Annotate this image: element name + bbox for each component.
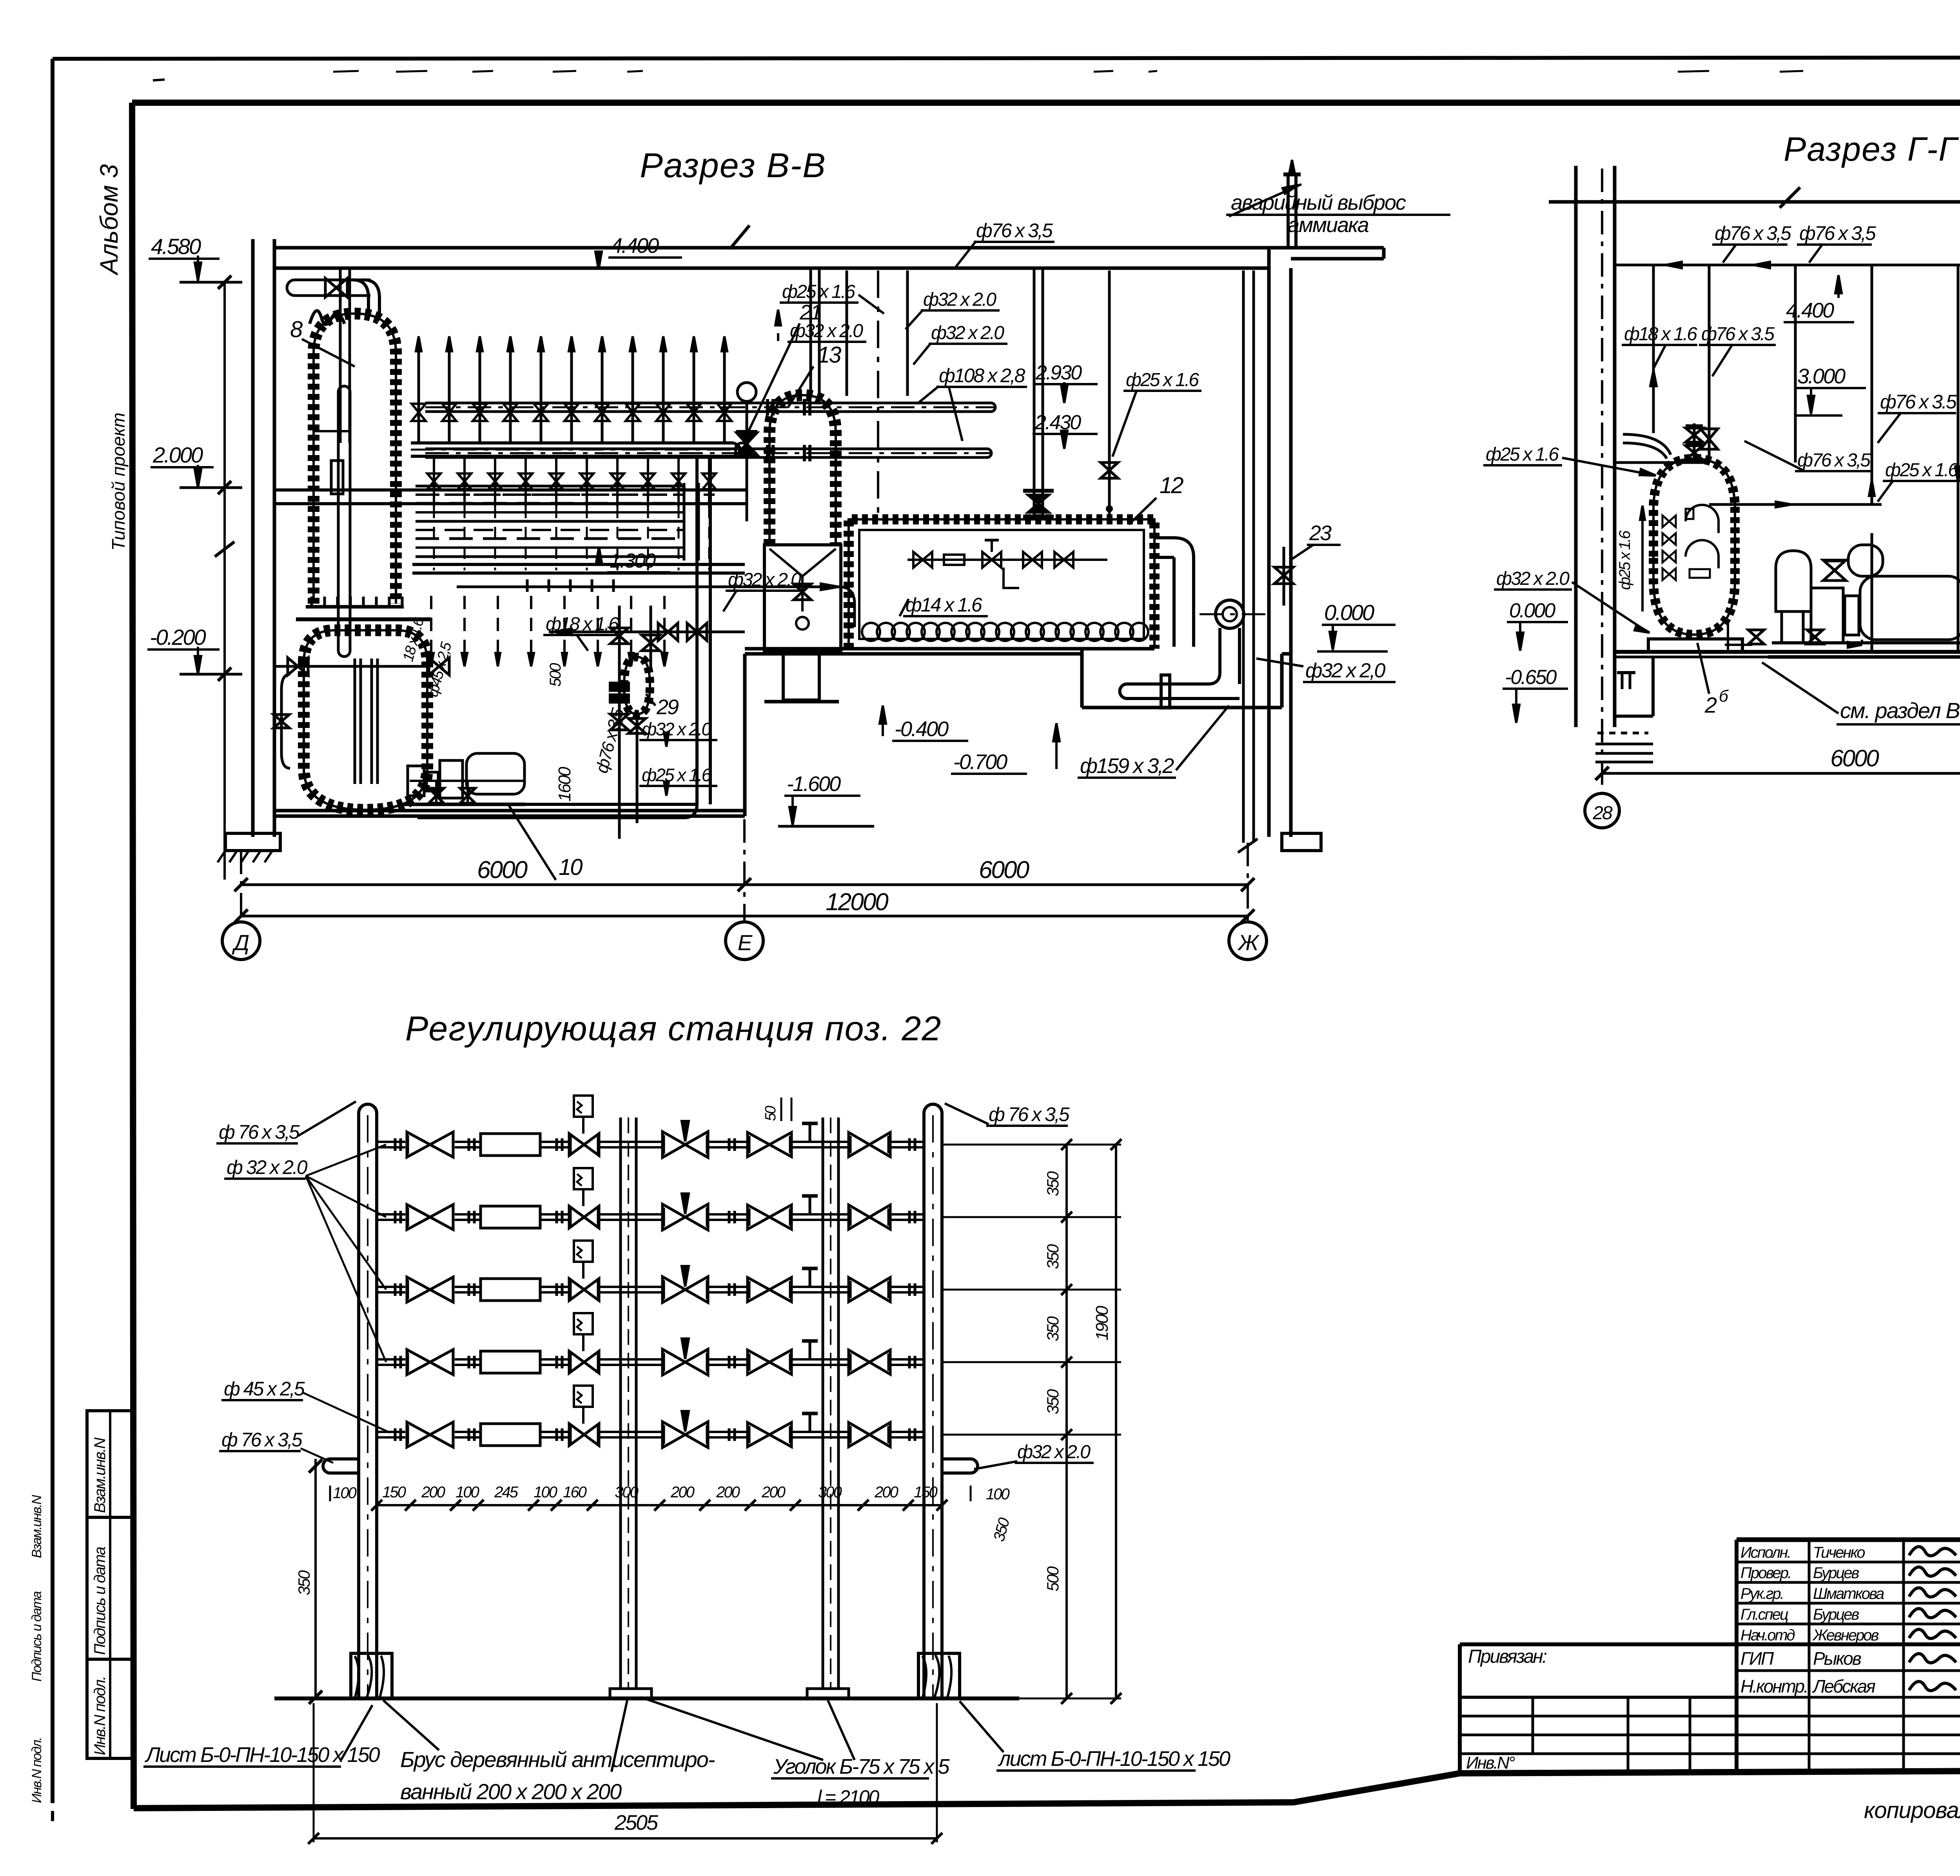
svg-text:ф32 x 2,0: ф32 x 2,0 [1305, 659, 1386, 682]
svg-text:Уголок Б-75 x 75 x 5: Уголок Б-75 x 75 x 5 [773, 1755, 950, 1778]
svg-text:Исполн.: Исполн. [1740, 1544, 1790, 1561]
svg-text:ф 45 x 2,5: ф 45 x 2,5 [224, 1378, 305, 1400]
svg-text:100: 100 [333, 1484, 356, 1502]
svg-text:300: 300 [615, 1484, 638, 1501]
svg-text:200: 200 [421, 1484, 445, 1501]
svg-text:Рыков: Рыков [1813, 1648, 1861, 1669]
svg-text:Альбом 3: Альбом 3 [95, 164, 123, 276]
svg-text:ф25 x 1.6: ф25 x 1.6 [1126, 370, 1199, 390]
svg-text:150: 150 [382, 1484, 406, 1501]
svg-text:Жевнеров: Жевнеров [1812, 1627, 1879, 1644]
svg-text:200: 200 [716, 1484, 740, 1501]
svg-text:23: 23 [1309, 521, 1332, 545]
svg-text:копировал: Волчева: копировал: Волчева [1864, 1798, 1960, 1823]
svg-text:Ж: Ж [1237, 930, 1260, 955]
svg-text:Взам.инв.N: Взам.инв.N [91, 1437, 109, 1513]
svg-text:500: 500 [1044, 1566, 1062, 1591]
svg-text:ф25 x 1.6: ф25 x 1.6 [1885, 460, 1958, 481]
svg-text:100: 100 [986, 1486, 1009, 1503]
svg-text:29: 29 [656, 695, 679, 719]
svg-text:4.400: 4.400 [611, 234, 659, 258]
svg-text:-0.700: -0.700 [953, 750, 1007, 774]
svg-text:ф76 x 3,5: ф76 x 3,5 [1799, 222, 1876, 244]
svg-text:Бурцев: Бурцев [1813, 1606, 1859, 1623]
svg-text:ф25 x 1.6: ф25 x 1.6 [1486, 444, 1559, 465]
svg-text:4.580: 4.580 [151, 234, 201, 259]
svg-text:8: 8 [290, 317, 303, 342]
svg-text:Д: Д [232, 930, 249, 955]
svg-text:6000: 6000 [1830, 745, 1879, 771]
svg-text:Бурцев: Бурцев [1813, 1564, 1859, 1582]
svg-text:160: 160 [563, 1484, 586, 1501]
svg-text:ф32 x 2.0: ф32 x 2.0 [1496, 568, 1570, 589]
svg-text:1900: 1900 [1093, 1306, 1112, 1341]
svg-text:350: 350 [295, 1570, 313, 1595]
svg-text:245: 245 [494, 1484, 518, 1501]
svg-text:4.400: 4.400 [1786, 299, 1834, 322]
svg-text:ф18 x 1.6: ф18 x 1.6 [1624, 324, 1697, 345]
svg-text:-0.400: -0.400 [895, 717, 949, 741]
svg-text:-0.200: -0.200 [150, 625, 206, 650]
svg-text:аммиака: аммиака [1288, 213, 1369, 237]
svg-text:Е: Е [738, 930, 753, 955]
svg-text:350: 350 [1044, 1316, 1062, 1341]
svg-text:Н.контр.: Н.контр. [1740, 1676, 1808, 1696]
svg-text:ф25 x 1.6: ф25 x 1.6 [642, 765, 712, 785]
svg-text:ф108 x 2,8: ф108 x 2,8 [939, 365, 1025, 386]
svg-text:ф 32 x 2.0: ф 32 x 2.0 [227, 1156, 308, 1178]
svg-text:0.000: 0.000 [1324, 600, 1374, 625]
svg-text:150: 150 [914, 1484, 937, 1501]
svg-text:ф159 x 3,2: ф159 x 3,2 [1080, 754, 1174, 778]
svg-text:Провер.: Провер. [1740, 1564, 1791, 1582]
svg-text:l = 2100: l = 2100 [817, 1786, 880, 1808]
svg-text:10: 10 [559, 855, 583, 880]
svg-text:Подпись и дата: Подпись и дата [29, 1591, 44, 1682]
svg-text:Подпись и дата: Подпись и дата [91, 1547, 109, 1655]
svg-text:350: 350 [1044, 1171, 1062, 1196]
svg-text:ванный 200 x 200 x 200: ванный 200 x 200 x 200 [400, 1779, 622, 1804]
svg-text:Рук.гр.: Рук.гр. [1740, 1585, 1783, 1602]
svg-text:ф76 x 3,5: ф76 x 3,5 [1715, 222, 1791, 244]
svg-text:2.430: 2.430 [1034, 411, 1081, 434]
svg-text:350: 350 [1044, 1244, 1062, 1269]
svg-text:Типовой проект: Типовой проект [108, 412, 129, 551]
svg-text:ф14 x 1.6: ф14 x 1.6 [906, 594, 982, 616]
svg-text:12: 12 [1160, 473, 1183, 498]
svg-text:ф32 x 2.0: ф32 x 2.0 [931, 323, 1004, 343]
svg-text:ф 76 x 3,5: ф 76 x 3,5 [221, 1429, 303, 1451]
svg-text:200: 200 [874, 1484, 898, 1501]
svg-text:3.000: 3.000 [1797, 365, 1846, 388]
svg-text:50: 50 [762, 1106, 779, 1121]
svg-text:21: 21 [799, 301, 821, 324]
svg-text:-0.650: -0.650 [1505, 666, 1557, 689]
svg-text:13: 13 [817, 342, 841, 368]
svg-text:-1.600: -1.600 [787, 772, 841, 796]
svg-text:Разрез В-В: Разрез В-В [640, 146, 826, 185]
svg-text:Регулирующая станция поз. 22: Регулирующая станция поз. 22 [405, 1009, 942, 1048]
svg-text:28: 28 [1592, 803, 1613, 824]
svg-text:ф18 x 1.6: ф18 x 1.6 [546, 614, 619, 635]
svg-text:Лебская: Лебская [1812, 1676, 1875, 1696]
svg-text:Нач.отд: Нач.отд [1740, 1627, 1795, 1644]
svg-text:лист Б-0-ПН-10-150 x 150: лист Б-0-ПН-10-150 x 150 [998, 1747, 1230, 1771]
svg-text:ф25 x 1.6: ф25 x 1.6 [782, 281, 855, 302]
svg-text:ф32 x 2.0: ф32 x 2.0 [642, 719, 712, 739]
svg-text:ф32 x 2.0: ф32 x 2.0 [728, 570, 801, 590]
svg-text:100: 100 [456, 1484, 479, 1501]
svg-text:300: 300 [818, 1484, 842, 1501]
svg-text:1.300: 1.300 [610, 550, 656, 572]
svg-text:ф32 x 2.0: ф32 x 2.0 [1017, 1442, 1091, 1462]
svg-text:ф76 x 3.5: ф76 x 3.5 [1701, 324, 1775, 345]
svg-text:Инв.N подл.: Инв.N подл. [91, 1676, 109, 1755]
svg-text:200: 200 [670, 1484, 694, 1501]
svg-text:500: 500 [547, 663, 564, 687]
svg-text:Брус деревянный антисептиро-: Брус деревянный антисептиро- [400, 1747, 715, 1772]
svg-text:200: 200 [761, 1484, 785, 1501]
svg-text:Гл.спец: Гл.спец [1740, 1606, 1788, 1623]
svg-text:1600: 1600 [555, 767, 574, 802]
svg-text:ф76 x 3,5: ф76 x 3,5 [976, 220, 1053, 241]
svg-text:ф76 x 3,5: ф76 x 3,5 [1797, 450, 1871, 471]
svg-text:350: 350 [1044, 1389, 1062, 1414]
svg-text:0.000: 0.000 [1509, 599, 1555, 622]
svg-text:12000: 12000 [826, 889, 888, 916]
svg-text:ГИП: ГИП [1740, 1648, 1774, 1669]
svg-text:см. раздел ВК: см. раздел ВК [1840, 698, 1960, 723]
svg-text:2.930: 2.930 [1035, 361, 1082, 384]
svg-text:ф 76 x 3,5: ф 76 x 3,5 [219, 1121, 300, 1143]
svg-text:ф76 x 3.5: ф76 x 3.5 [1880, 391, 1957, 413]
svg-text:6000: 6000 [477, 856, 527, 884]
svg-text:ф 76 x 3,5: ф 76 x 3,5 [989, 1103, 1070, 1125]
svg-text:2.000: 2.000 [152, 443, 203, 467]
svg-text:ф32 x 2.0: ф32 x 2.0 [923, 289, 996, 310]
svg-text:Взам.инв.N: Взам.инв.N [29, 1495, 44, 1558]
svg-text:Привязан:: Привязан: [1468, 1646, 1547, 1667]
svg-text:ф25 x 1.6: ф25 x 1.6 [1616, 530, 1633, 590]
svg-text:2505: 2505 [614, 1811, 659, 1834]
svg-text:Инв.N подл.: Инв.N подл. [29, 1738, 44, 1803]
svg-text:Тиченко: Тиченко [1813, 1544, 1865, 1561]
svg-text:Инв.N°: Инв.N° [1466, 1753, 1515, 1773]
svg-text:2: 2 [1704, 693, 1717, 717]
svg-text:100: 100 [534, 1484, 557, 1501]
svg-text:6000: 6000 [979, 856, 1029, 884]
svg-text:Разрез Г-Г: Разрез Г-Г [1784, 131, 1959, 168]
svg-text:Шматкова: Шматкова [1813, 1585, 1884, 1602]
